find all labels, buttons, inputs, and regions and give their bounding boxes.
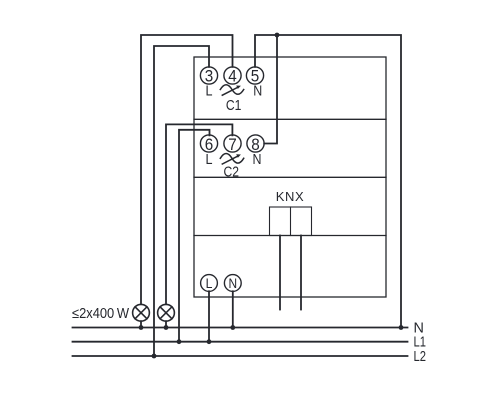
svg-text:N: N — [229, 276, 238, 291]
terminal 5 — [246, 67, 263, 84]
svg-text:N: N — [253, 84, 262, 100]
svg-text:8: 8 — [251, 135, 260, 154]
terminal 3 — [200, 67, 217, 84]
terminal 8 — [247, 135, 264, 152]
terminal N — [224, 275, 241, 292]
junction dot N wire on N bus — [399, 325, 404, 330]
junction dot lamp2 on N bus — [164, 325, 169, 330]
wire L1 bus to terminal 6 — [179, 130, 210, 342]
KNX bus wire 2 — [300, 236, 302, 310]
terminal 4 — [224, 67, 241, 84]
lamp E1 — [133, 304, 150, 321]
wire lamp2 to N bus — [165, 321, 167, 327]
KNX block — [270, 207, 312, 236]
wire terminal N to N bus — [232, 291, 234, 327]
svg-text:N: N — [253, 152, 262, 168]
wire terminal 8 to N wire — [264, 35, 277, 144]
device box — [194, 57, 386, 297]
svg-text:7: 7 — [228, 135, 237, 154]
junction dot terminal 3 wire on L2 bus — [152, 354, 157, 359]
wire lamp1 to terminal 4 — [141, 35, 233, 304]
svg-text:C1: C1 — [226, 98, 242, 114]
junction dot terminal N on N bus — [230, 325, 235, 330]
terminal 7 — [224, 135, 241, 152]
L2 bus line — [73, 355, 408, 357]
dimmer symbol C2 — [220, 154, 243, 165]
terminal L — [201, 275, 218, 292]
L1 bus line — [73, 341, 408, 343]
junction dot terminal 6 wire on L1 bus — [177, 339, 182, 344]
junction dot lamp1 on N bus — [139, 325, 144, 330]
svg-text:≤2x400 W: ≤2x400 W — [72, 306, 129, 322]
wire terminal L to L1 bus — [208, 291, 210, 341]
lamp E2 — [158, 304, 175, 321]
terminal 6 — [200, 135, 217, 152]
divider below C2 row — [194, 176, 386, 178]
svg-text:L2: L2 — [414, 349, 427, 365]
dimmer symbol C1 — [220, 85, 243, 96]
KNX bus wire 1 — [279, 236, 281, 310]
svg-text:L: L — [206, 276, 213, 291]
divider below C1 row — [194, 118, 386, 120]
svg-text:L: L — [206, 84, 213, 100]
wire terminal 5 to N bus — [255, 35, 401, 328]
N bus line — [73, 327, 408, 329]
wire lamp2 to terminal 7 — [166, 124, 232, 303]
svg-text:L: L — [206, 152, 213, 168]
wire L2 bus to terminal 3 — [154, 46, 209, 356]
svg-text:C2: C2 — [223, 164, 239, 180]
junction dot terminal8/N wire — [275, 33, 280, 38]
svg-text:KNX: KNX — [276, 189, 305, 204]
svg-text:6: 6 — [205, 135, 214, 154]
wire lamp1 to N bus — [140, 321, 142, 327]
divider below KNX row — [194, 235, 386, 237]
svg-text:4: 4 — [228, 67, 237, 86]
junction dot terminal L on L1 bus — [207, 339, 212, 344]
